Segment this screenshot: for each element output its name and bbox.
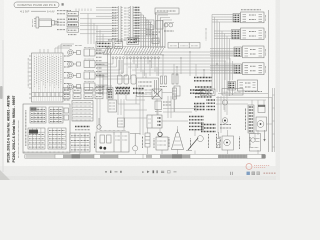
dark connector block CN7 [107,88,113,100]
wire right cluster feeds [216,94,272,153]
dark label stack L2 [194,104,205,110]
controller C1 left pins [28,56,31,98]
gauge G4 [222,118,228,124]
left scan edge streak [2,40,3,172]
dark cell row extension [116,89,144,94]
vertical page border line right [268,10,270,152]
bar segment pale left [26,155,56,158]
legend rotated caption [25,110,27,146]
wire verticals right-mid down [218,96,227,133]
bar micro text above [23,151,75,153]
relay R5 [238,80,258,91]
label text rows mid [163,102,171,105]
tiny toolbar icons center group [142,170,177,173]
float switch FS1 [216,132,220,148]
relay R1 label stack [233,14,240,23]
relay coil K3 [131,75,136,84]
sensor box B4 [155,101,162,115]
connector cell row A (upper) [63,88,103,93]
label box L6 [222,89,243,96]
gauge G1 [201,89,208,96]
wire links mid-low [124,88,196,135]
label column wire names [57,14,65,30]
wire feeders to R1 R2 [212,15,233,97]
wire verticals mid-right [168,96,174,118]
wire verticals center-low [97,99,124,131]
pin labels left of strip CN1 [112,7,117,38]
small box F2 [152,38,159,44]
dark label stack L1 [190,90,204,93]
bar segment gray A [63,155,94,158]
bar dark block A [72,155,81,159]
legend side cells [64,108,69,120]
rotated labels bottom row [143,134,251,148]
small box B5 [118,118,125,127]
bar segment small C [146,155,152,158]
bar segment hatch E [218,155,247,158]
right margin [276,0,280,180]
horn HN1 (funnel) [171,130,183,150]
legend table D [48,128,66,149]
connector strip CN1 (vertical, many pins) [117,6,123,43]
faint third rotated line [18,120,20,158]
wire joints below cells [118,95,145,104]
wire feeders to vertical strips [80,7,117,39]
connector strip CN2 (vertical, many pins) [129,6,135,43]
relay coil pair K2 [116,75,131,94]
sensor S1 [68,48,108,56]
wire harness bundle (center verticals) [135,13,174,49]
legend box LG [23,104,70,153]
label box A1 [155,8,179,14]
diode block D1 [152,89,162,115]
washer pump WP1 [250,134,261,152]
motor pump MP1 [256,117,267,131]
scan grain overlay [0,0,280,180]
watermark icon row [231,172,277,175]
switch pair SW3 [172,74,180,96]
legend table B [49,107,63,123]
header note text [20,9,91,14]
rotated label 73B0B [239,136,241,149]
dark label stack L4 [207,100,216,110]
control box B2 [147,115,162,128]
relay R4 label stack [234,64,242,74]
labels above sensor S1 [63,45,82,47]
wire junction verticals [88,14,103,45]
dark grid cluster CN5 [108,38,139,45]
relay R4 [243,63,265,75]
wire motor leads [55,21,59,25]
controller C1 (large pinned box) [32,53,64,102]
label cell stack left of drops [96,50,102,75]
motor M1 body [39,19,55,27]
component block B1 [108,100,117,112]
resistor tower RT1 [173,88,177,112]
switch SW1 [156,132,168,150]
bar divider ticks [55,154,247,158]
page border double line right [273,88,275,152]
tiny toolbar icons left group [105,171,122,173]
wire stubs to bottom components [148,126,259,136]
component cluster F1 (fuse group) [146,20,174,35]
label text right top [245,91,262,93]
tiny label above relays [241,9,261,11]
sensor S4 [68,82,108,90]
tab side mark [62,3,64,5]
horizontal bus center-right [124,51,234,73]
float lever FL1 [186,136,203,151]
bar segment gray D [160,155,190,158]
drain arrow [263,130,265,142]
labels above junction box [100,130,126,132]
sensor S2 [68,59,108,67]
pin labels between strips [124,8,129,38]
legend table C [28,128,45,149]
title tab [14,2,59,8]
resistor RT2 [80,133,258,154]
box B3 [258,105,265,113]
wire horizontal tower link [145,92,172,94]
connector cell row B (lower) [63,94,103,99]
label row box above bus [168,43,200,49]
wire drops left of relay row [98,74,112,95]
bottom table T2 [70,133,90,152]
pressure switch PS1 [97,118,101,129]
bottom margin band [0,166,280,180]
rotated label top-mid [205,28,207,41]
connector block stack K1 [67,11,79,34]
left edge scan blob [0,86,3,99]
terminal table T1 [72,101,93,122]
progress bar track [25,154,266,158]
bar end cap [262,155,266,159]
relay R2 label stack [232,30,241,40]
motor M1 connector [33,17,39,28]
relay R3 [243,46,265,58]
page background [0,0,280,180]
lamp LP1 (T symbol) [130,134,141,151]
dark cell pair row L5 [201,125,231,132]
pin labels right of strip CN2 [135,7,140,41]
bar segment gray B [100,155,118,158]
wiper motor WM1 [222,136,234,150]
label under table T1 [75,127,90,130]
wire drops from circles [97,59,159,79]
bar dark block D [172,155,182,159]
legend table A [30,107,46,123]
dark grid cluster CN4 [114,42,123,49]
relay right pin marks [265,15,267,73]
sensor S3 [68,71,108,79]
wire vertical bus sensors [108,46,123,92]
wire feeders to R3 R4 [210,49,234,74]
wire exits above controller [40,44,74,53]
junction box JB1 [95,132,130,152]
dark label stack L3 [189,117,204,130]
gauge G3 [222,100,227,112]
bus drop wires [136,52,233,80]
controller C1 right pin labels [64,56,70,100]
watermark red circle [246,164,270,170]
dark cluster CN6 [194,78,212,97]
bottom-left scan smudge [0,170,10,180]
terminal block TB1 [137,78,159,97]
rotated label CN8 [245,108,247,130]
gauge G2 [209,89,216,96]
switch pair SW2 [160,76,167,87]
relay R2 [241,28,265,40]
connector circle row under band [112,57,160,59]
relay R5 label stack [228,82,236,91]
dark grid cluster CN3 [96,42,113,49]
relay R3 label stack [234,47,242,57]
dark connector strip CN8 [248,105,254,133]
relay R1 [241,12,265,23]
harness hatch band (diagonal bundle) [103,47,165,55]
